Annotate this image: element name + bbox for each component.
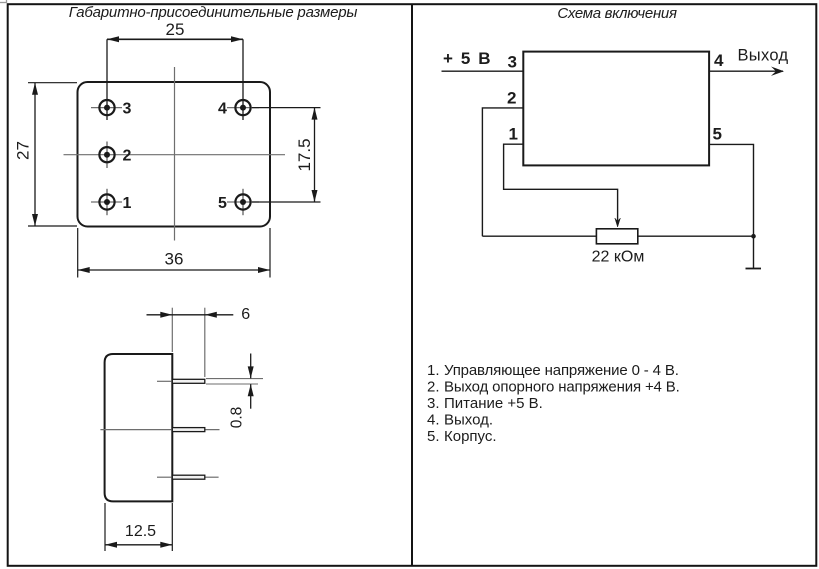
resistor 22 kOhm body: [596, 229, 637, 244]
dimension 12.5 line: [105, 544, 172, 546]
corner artifact box: [0, 0, 7, 3]
junction dot: [751, 234, 756, 239]
dimension 0.8 line: [250, 354, 252, 379]
horizontal centerline: [64, 154, 286, 156]
svg-text:Схема включения: Схема включения: [557, 5, 677, 22]
svg-text:Выход.: Выход.: [444, 412, 493, 429]
module body top view: [78, 82, 271, 227]
pin 3 wire: [442, 70, 524, 72]
dimension 36 line: [78, 269, 270, 271]
dimension 17.5 extension lines: [252, 107, 321, 109]
svg-text:5: 5: [713, 125, 722, 144]
svg-text:+ 5 В: + 5 В: [443, 49, 491, 68]
svg-text:1: 1: [509, 125, 518, 144]
vertical centerline: [174, 67, 176, 241]
svg-text:27: 27: [14, 141, 33, 160]
pin 4 (top view): [227, 100, 259, 115]
dimension 0.8 extension lines: [206, 378, 263, 380]
dimension 25 extension lines: [106, 39, 108, 120]
svg-text:6: 6: [241, 306, 250, 323]
module box (schematic): [523, 52, 709, 166]
ground symbol: [746, 268, 762, 270]
resistor left wire: [482, 235, 596, 237]
svg-text:5.: 5.: [427, 428, 440, 445]
svg-text:2.: 2.: [427, 379, 440, 396]
pin 1 (top view): [91, 189, 122, 215]
dimension 6 extension lines: [171, 308, 173, 352]
pin 4 wire with output arrow: [709, 70, 783, 72]
panel divider: [411, 4, 413, 566]
side view middle centerline: [100, 429, 219, 431]
module body side view: [105, 354, 173, 501]
pin 5 wire: [709, 144, 753, 268]
svg-text:Питание +5 В.: Питание +5 В.: [444, 395, 543, 412]
side pin bottom: [157, 475, 219, 479]
svg-text:0.8: 0.8: [229, 407, 246, 429]
svg-text:3: 3: [123, 101, 132, 118]
dimension 12.5 extension lines: [104, 503, 106, 551]
dimension 17.5 line: [314, 108, 316, 202]
svg-text:Габаритно-присоединительные ра: Габаритно-присоединительные размеры: [69, 4, 358, 21]
resistor right wire: [638, 235, 754, 237]
side pin top: [157, 379, 205, 383]
svg-text:22 кОм: 22 кОм: [592, 249, 645, 266]
svg-text:Выход опорного напряжения +4 В: Выход опорного напряжения +4 В.: [444, 379, 680, 396]
dimension 25 line: [107, 38, 243, 40]
pin 3 (top view): [91, 100, 122, 115]
svg-text:25: 25: [166, 20, 185, 39]
pin 2 wire: [482, 108, 523, 236]
dimension 27 extension lines: [28, 82, 77, 84]
svg-text:3: 3: [508, 52, 517, 71]
svg-text:1: 1: [123, 195, 132, 212]
svg-text:Управляющее напряжение 0 - 4 В: Управляющее напряжение 0 - 4 В.: [444, 362, 679, 379]
dimension 27 line: [34, 83, 36, 226]
svg-text:Корпус.: Корпус.: [444, 428, 497, 445]
dimension 36 extension lines: [77, 228, 79, 278]
svg-text:36: 36: [165, 250, 184, 269]
svg-text:2: 2: [123, 148, 132, 165]
pin 1 wire: [504, 144, 618, 224]
svg-text:2: 2: [507, 88, 516, 107]
svg-text:17.5: 17.5: [295, 138, 314, 171]
svg-text:4.: 4.: [427, 412, 440, 429]
svg-text:3.: 3.: [427, 395, 440, 412]
svg-text:Выход: Выход: [738, 46, 789, 64]
svg-text:4: 4: [218, 101, 227, 118]
dimension 6 line: [147, 314, 234, 316]
svg-text:12.5: 12.5: [125, 523, 156, 540]
wiper arrow: [615, 218, 621, 227]
svg-text:4: 4: [714, 51, 724, 70]
side pin middle: [172, 428, 205, 432]
svg-text:1.: 1.: [427, 362, 440, 379]
pin 5 (top view): [227, 189, 259, 215]
pin 2 (top view): [99, 142, 114, 169]
svg-text:5: 5: [218, 195, 227, 212]
